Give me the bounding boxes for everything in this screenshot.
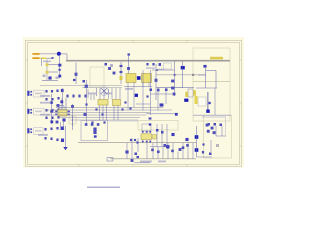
bottom middle: small box	[142, 124, 151, 131]
blue dot right of IC3	[135, 94, 138, 97]
connector J2	[27, 109, 29, 114]
IC3	[113, 100, 121, 106]
vertical mesh lines	[87, 88, 121, 126]
section box top-middle	[90, 67, 104, 87]
wire down from fuse	[59, 56, 61, 78]
comps row above ICs	[66, 95, 68, 98]
wire y72	[49, 71, 59, 73]
yellow cap CX1	[46, 63, 49, 66]
comp mid	[58, 69, 60, 71]
vertical x121	[120, 62, 122, 84]
bus lines under ICs	[46, 108, 172, 121]
comp below IC1	[62, 118, 65, 121]
bottom mid-left	[107, 158, 113, 162]
wire y74.8	[156, 74, 206, 76]
varistor	[58, 64, 61, 67]
text bottom	[140, 161, 152, 163]
wire vertical x215	[214, 88, 216, 115]
connector J3	[27, 128, 29, 133]
middle column verticals	[143, 70, 166, 115]
transistor pile extra 2	[213, 131, 216, 134]
section box mid-right	[138, 121, 178, 131]
transformer input vertical	[128, 54, 130, 74]
blue square left-mid	[48, 76, 51, 79]
orange label AC-N	[32, 57, 39, 59]
dark blob under regulator	[184, 99, 188, 102]
wire drop x41	[40, 58, 42, 66]
section box bottom-right	[204, 115, 232, 158]
comps on x174 column	[171, 80, 174, 83]
bridge rectifier cluster	[104, 63, 107, 66]
transformer T1 winding right	[142, 74, 152, 83]
transformer core	[137, 76, 141, 80]
vertical x174.5	[174, 61, 176, 96]
line below page	[87, 186, 120, 188]
section box right 1	[193, 48, 230, 82]
yellow label after AC-N	[41, 58, 47, 60]
comps right of IC4	[156, 124, 158, 147]
regulator box	[188, 89, 193, 97]
wire below AC-N	[47, 57, 54, 59]
page background	[0, 0, 252, 194]
circle component	[100, 87, 109, 96]
connector J1	[27, 91, 29, 96]
transformer T1 winding left	[126, 74, 136, 83]
IC4	[141, 134, 152, 140]
wire y70	[152, 69, 175, 71]
cluster near x86	[85, 85, 88, 88]
small marks y74-78 left	[43, 75, 46, 78]
text in J2 trapezoid	[35, 111, 42, 113]
blue squares left edge	[195, 135, 199, 139]
node dot	[58, 75, 61, 78]
gray main bus top	[66, 60, 230, 62]
orange label AC-L	[32, 53, 39, 55]
comb verticals	[147, 143, 193, 159]
sub-circuit box	[81, 121, 108, 141]
bottom right cluster	[207, 123, 210, 126]
wires below transformer	[124, 86, 152, 88]
fuse blob	[57, 52, 61, 56]
text in J1 trapezoid	[35, 93, 42, 95]
section divider wire y115	[193, 114, 231, 116]
wire y64.5	[49, 64, 59, 66]
long wire y85.5	[40, 85, 122, 87]
comp above sub-circuit box	[84, 113, 87, 116]
text under fuse	[43, 61, 51, 63]
section box right 2	[193, 82, 230, 122]
comp on comb 3	[186, 144, 189, 147]
border frame inner	[28, 42, 240, 164]
yellow box right	[195, 96, 198, 104]
wire right of fuse	[61, 53, 67, 55]
label box left	[69, 116, 76, 124]
wire y87.5	[82, 87, 122, 89]
secondary diodes	[146, 63, 148, 66]
blue dot right	[208, 102, 211, 104]
right section components	[203, 65, 206, 68]
comp on comb 2	[171, 150, 174, 153]
yellow cap CX2	[46, 71, 49, 74]
text above ICs	[88, 93, 96, 95]
IC2	[98, 100, 108, 106]
yellow net label on bus	[210, 57, 223, 60]
comp right	[75, 73, 78, 76]
comps in mesh	[95, 108, 97, 110]
comp on comb 1	[151, 149, 154, 152]
text SS14 labels	[146, 67, 155, 69]
ground drop	[65, 126, 67, 147]
IC1	[58, 110, 67, 117]
junction node dark	[206, 110, 209, 113]
bus bottom 2	[110, 158, 196, 160]
comp on comb 0	[157, 151, 160, 154]
transistor pile extra 1	[207, 130, 210, 133]
text in J3 trapezoid	[35, 130, 42, 132]
wire y117	[202, 116, 226, 118]
comp on x156	[155, 79, 158, 82]
junction dots secondary	[156, 69, 158, 71]
frame tick marks	[26, 40, 242, 166]
wire y80.5	[42, 80, 58, 82]
node blob	[181, 66, 185, 69]
left vertical bus	[51, 94, 53, 124]
wire y121	[108, 120, 139, 122]
long bus bottom	[78, 142, 196, 144]
vertical through caps	[46, 60, 48, 81]
wire vertical right column	[207, 92, 209, 111]
small comp on AC-N wire	[51, 57, 53, 59]
border frame outer	[26, 40, 242, 166]
wire AC-L to fuse	[40, 53, 57, 55]
